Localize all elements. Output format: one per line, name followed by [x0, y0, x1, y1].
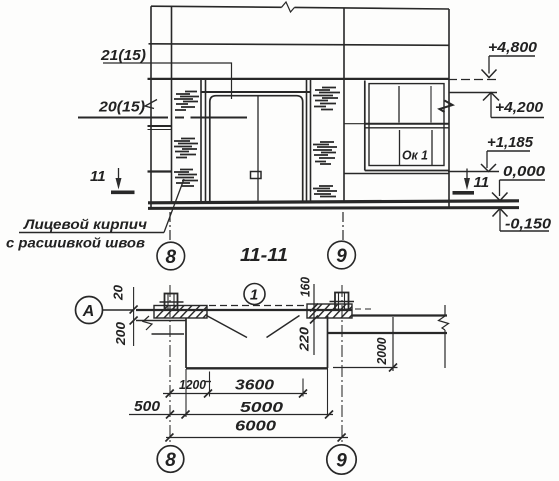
elevation mark +4.800 arrow [482, 70, 497, 78]
elevation left outer vertical [150, 6, 152, 208]
elevation mark +4.200 vertical [490, 93, 492, 118]
svg-text:21(15): 21(15) [100, 48, 146, 64]
section: left jamb pier (hatched) [154, 306, 207, 319]
tick row2 at grid8 [166, 411, 174, 419]
stray dash after 1200 [206, 381, 212, 383]
elevation mark +1.185 vertical [486, 151, 488, 168]
svg-text:11: 11 [90, 168, 106, 185]
section: right break symbol with extension [439, 305, 449, 368]
window bottom sash mullion 2 [431, 130, 433, 165]
door frame top bar [201, 91, 311, 93]
section: tick 220 [310, 316, 318, 324]
tick row1 at opening left [204, 390, 212, 398]
elevation wall vertical at grid 9 [343, 8, 345, 202]
ground line -0.150 [148, 206, 519, 210]
brick hatch right pier upper [313, 88, 340, 110]
section: tick 20 top [130, 306, 138, 314]
svg-text:20(15): 20(15) [98, 100, 145, 116]
section: wall bottom face left stub [136, 320, 186, 322]
section: bottom extension line (2000 dim) [333, 367, 398, 369]
grid circle 8 (bottom) [157, 446, 184, 473]
section: door leaf left (open) [207, 316, 248, 338]
section: opening mark circle 1 [244, 284, 265, 305]
tick row2 at pit left [182, 411, 190, 419]
svg-text:Ок 1: Ок 1 [402, 148, 428, 163]
section: pit right wall [327, 316, 329, 368]
level line +1.185 [448, 171, 499, 173]
door centre meeting stile [257, 96, 259, 201]
tick row2 at pit right [325, 411, 333, 419]
section: left anchor bolt [160, 294, 184, 310]
grid 9 dash-dot (between views) [342, 212, 344, 241]
svg-text:9: 9 [336, 451, 347, 472]
section: wall inner face right [328, 332, 448, 334]
svg-text:Лицевой кирпич: Лицевой кирпич [23, 216, 147, 232]
elevation mark -0.150 arrow [493, 209, 508, 217]
elevation top edge line (left of break) [151, 6, 282, 7]
svg-text:2000: 2000 [374, 337, 389, 366]
svg-text:3600: 3600 [235, 377, 275, 394]
leader line for label 21(15) [103, 63, 232, 99]
dimension line row 3 [166, 437, 348, 439]
section: left extension line for 20/200 [133, 287, 135, 346]
section: right anchor bolt [330, 293, 355, 310]
window middle bar upper line [366, 123, 450, 125]
elevation mark +1.185 arrow [481, 164, 496, 172]
section: hidden lintel line over opening (dashed) [209, 305, 305, 307]
svg-text:A: A [82, 303, 95, 320]
label underline (brick note) [19, 232, 164, 234]
grid circle 9 (bottom) [327, 445, 356, 474]
section mark 11 left bar [111, 191, 135, 195]
svg-text:220: 220 [297, 326, 312, 352]
svg-text:1: 1 [250, 287, 258, 304]
elevation mark +1.185 shelf [487, 150, 530, 152]
elevation mark 0.000 arrow [492, 193, 508, 201]
elevation horizontal line y44 [149, 44, 450, 46]
extension vertical x186 [185, 369, 187, 417]
svg-text:1200: 1200 [179, 378, 206, 392]
elevation mark +4.200 arrow [483, 93, 499, 101]
section: wall top face right [352, 314, 447, 316]
section mark 11 right arrow [466, 169, 468, 181]
elevation mark 0.000 vertical [499, 180, 501, 196]
svg-text:20: 20 [111, 284, 126, 301]
svg-text:11: 11 [474, 174, 490, 191]
svg-text:+4,800: +4,800 [488, 40, 537, 56]
svg-text:500: 500 [134, 399, 160, 415]
section: grid 9 dash-dot line [341, 285, 343, 445]
section: left break symbol [143, 316, 152, 330]
window top sash mullion 2 [430, 86, 432, 123]
extension vertical x327.5 [327, 369, 329, 417]
elevation top edge line (right of break) [295, 7, 450, 9]
break symbol on top edge [282, 2, 295, 12]
masonry joint tick 1b [148, 129, 172, 131]
masonry joint tick 2 [148, 170, 172, 172]
leader to brick pier [164, 179, 184, 233]
elevation mark -0.150 vertical [499, 209, 501, 232]
svg-text:6000: 6000 [235, 418, 277, 435]
label 20(15) shelf line (dash-dot) [78, 117, 247, 119]
section: hidden line right (dashed) [345, 308, 371, 310]
svg-text:-0,150: -0,150 [505, 217, 551, 233]
section: wall inner face left stub [152, 333, 185, 335]
window outer frame [365, 81, 449, 171]
section mark 11 left arrow [118, 168, 120, 180]
section: dim line 2000 vertical [392, 317, 394, 371]
window top sash mullion 1 [398, 86, 400, 123]
section: grid circle A [76, 297, 103, 324]
elevation horizontal line y79 (lintel) [148, 78, 450, 80]
brick hatch left pier upper [174, 92, 199, 111]
elevation mark -0.150 shelf [500, 230, 549, 232]
svg-text:0,000: 0,000 [503, 164, 545, 180]
elevation mark +4.800 shelf [489, 55, 535, 57]
section: grid A line [103, 309, 135, 311]
section: right jamb pier (hatched) [307, 304, 352, 318]
tick row1 at opening right [299, 390, 307, 398]
door outer frame verticals [201, 80, 311, 202]
svg-text:9: 9 [336, 246, 347, 267]
section: grid 8 dash-dot line [169, 285, 171, 446]
extension vertical x303 [302, 379, 304, 397]
dimension line row 2 [129, 414, 333, 416]
section: tick 160 [310, 304, 318, 312]
tick row3 at grid8 [165, 434, 173, 442]
section: wall top face left [136, 309, 352, 311]
ground line 0.000 (thick) [148, 201, 519, 203]
svg-text:160: 160 [298, 276, 313, 297]
svg-text:8: 8 [166, 247, 177, 268]
brick hatch left pier middle [174, 139, 198, 158]
svg-text:8: 8 [165, 450, 176, 471]
brick hatch right pier lower [313, 186, 337, 197]
section: door leaf right (open) [267, 316, 300, 338]
window middle bar lower line [366, 127, 450, 129]
window bottom sash mullion 1 [399, 130, 401, 165]
elevation mark +4.800 vertical [488, 56, 490, 74]
window break symbol [440, 101, 453, 113]
svg-text:+4,200: +4,200 [495, 100, 543, 116]
svg-text:+1,185: +1,185 [487, 135, 534, 151]
section: tick 2000 [389, 364, 397, 372]
section: pit bottom [186, 367, 328, 369]
level line +4.800 (dashed) [448, 79, 497, 81]
label 20(15) arrow mark [145, 100, 157, 109]
elevation second vertical (corner pilaster) [171, 6, 173, 202]
grid circle 9 (top) [328, 241, 356, 269]
window sill line [344, 173, 449, 175]
section mark 11 right bar [453, 191, 475, 195]
grid 8 dash-dot (between views) [169, 212, 171, 242]
grid circle 8 (top) [157, 242, 185, 270]
section mark 11 left arrowhead [116, 178, 122, 190]
door handle [251, 172, 262, 179]
elevation mark 0.000 shelf [500, 179, 546, 181]
svg-text:11-11: 11-11 [240, 245, 288, 265]
tick row3 at grid9 [338, 434, 346, 442]
extension vertical x209.5 [209, 372, 211, 397]
elevation mark +4.200 shelf [491, 117, 544, 119]
svg-text:с расшивкой швов: с расшивкой швов [6, 235, 146, 251]
brick hatch left pier lower [174, 170, 198, 187]
section: tick 20 bottom [130, 317, 138, 325]
tick row1 at grid8 [166, 390, 174, 398]
section: pit left wall [185, 318, 187, 368]
level line +4.200 [449, 92, 497, 94]
masonry joint tick 1 [148, 125, 172, 127]
elevation right outer vertical [448, 9, 450, 208]
brick hatch right pier middle [313, 142, 337, 164]
window middle bar left extension [344, 123, 366, 125]
section mark 11 right arrowhead [464, 178, 470, 190]
section: extension line 160/220 [313, 284, 315, 355]
door inner frame (rounded) [210, 96, 303, 201]
window inner frame [369, 84, 444, 166]
svg-text:200: 200 [113, 321, 128, 346]
svg-text:5000: 5000 [240, 399, 284, 416]
dimension line row 1 [163, 393, 307, 395]
